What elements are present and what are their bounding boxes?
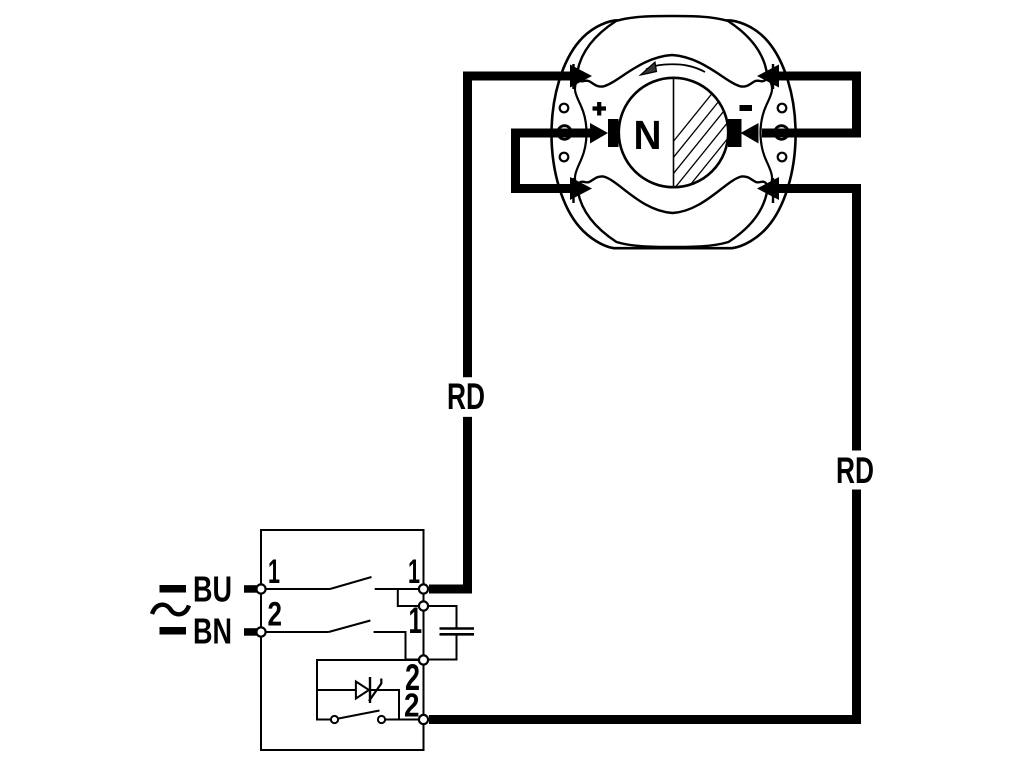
screw hole left bottom [560,153,569,162]
switch 2 blade [329,621,371,633]
capacitor C1 branch wires [428,606,457,660]
svg-text:RD: RD [836,450,874,491]
wire: top-right field terminal to right brush [762,76,857,133]
wire RD left: box terminal 1 up to top-left field terminal [429,417,468,589]
screw hole left top [560,104,569,113]
terminal circle 1 right [419,584,428,593]
rotation arrow [646,64,705,72]
svg-text:1: 1 [268,553,280,591]
branch to node 1 [398,589,420,606]
terminal circle 1 left [256,584,265,593]
rotor (armature) circle [619,78,728,187]
svg-text:BN: BN [193,611,232,652]
field magnet top (pole shoe) [577,16,767,87]
interrupter blade [339,711,380,719]
interrupter contact left [331,716,338,723]
switch 2 contact lines [266,631,329,633]
rotor hatching right half [622,75,818,205]
terminal pin top-left [572,64,574,89]
arrow into left brush [590,123,608,144]
screw hole right bottom [778,153,787,162]
brush left (+) [608,119,619,147]
stub wire to terminal 1 [244,585,257,593]
svg-text:1: 1 [408,553,420,591]
arrow into right brush [741,123,759,144]
rotor divider line [673,78,675,187]
screw hole right top [778,104,787,113]
screw hole left middle [558,126,572,140]
plus label [593,102,607,116]
svg-text:2: 2 [268,596,283,634]
terminal circle 2 left [256,627,265,636]
motor housing outer outline [552,20,796,248]
condenser sub-box top and left [317,660,420,720]
interrupter output line [386,719,420,721]
node circle 2 inner [419,655,428,664]
terminal pin top-right [772,64,774,89]
stub wire to terminal 2 [244,628,257,636]
arrow into bottom-right field terminal [757,177,779,200]
terminal pin bottom-right [772,178,774,203]
AC source dash lower [160,627,187,635]
AC tilde symbol [152,605,189,615]
diode V1 cathode bar [369,677,371,703]
wire: left brush to bottom-left field terminal [516,133,592,189]
AC source dash upper [160,585,187,593]
capacitor C1 plates [440,629,475,635]
terminal pin bottom-left [572,178,574,203]
brush right (-) [728,119,742,147]
switch 1 blade [330,577,372,589]
screw hole right middle [775,126,789,140]
arrow into top-right field terminal [757,65,779,88]
node circle 1 inner [419,601,428,610]
svg-text:N: N [634,112,662,158]
field magnet bottom (pole shoe) [577,176,767,247]
arrow into bottom-left field terminal [570,177,592,200]
minus label [740,105,753,111]
diode V1 triangle [356,682,369,699]
switch 1 contact lines [266,588,331,590]
switch box outline [261,530,424,750]
diode branch line [317,690,399,720]
arrow into top-left field terminal [570,65,592,88]
svg-text:BU: BU [193,569,232,610]
terminal circle 2 bottom [419,715,428,724]
motor inner wall right [761,82,773,185]
switch 1 output line [375,588,420,590]
switch 2 output line [374,632,420,660]
wire RD right: bottom-right field terminal down to box terminal 2 [775,189,857,451]
svg-text:RD: RD [447,376,485,417]
interrupter contact right [378,716,385,723]
motor inner wall left [575,82,587,185]
diode V1 breakover tick [369,679,381,702]
